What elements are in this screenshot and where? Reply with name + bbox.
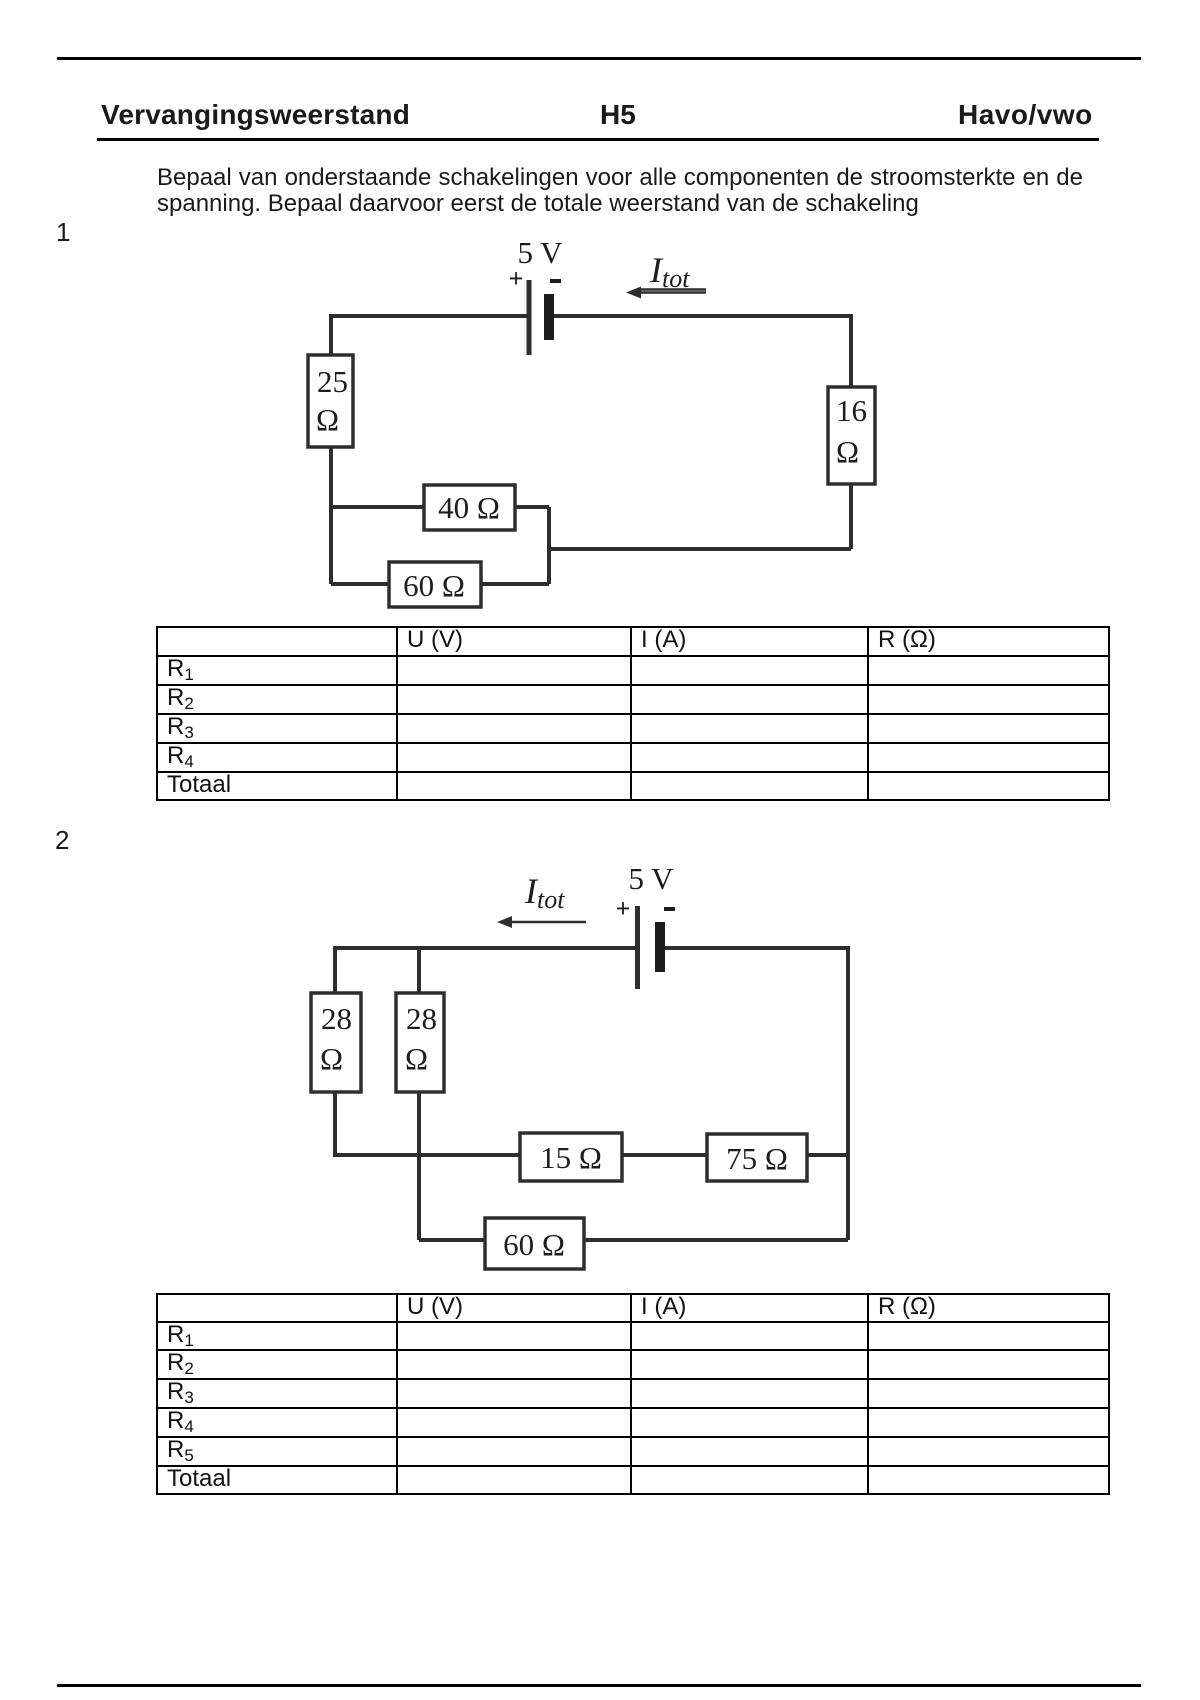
svg-text:28: 28	[321, 1001, 352, 1036]
svg-text:Ω: Ω	[316, 402, 339, 437]
svg-text:75 Ω: 75 Ω	[726, 1141, 788, 1176]
svg-text:+: +	[509, 264, 524, 293]
resistor R1 28 ohm box	[311, 993, 361, 1092]
wire: top left from battery to left corner	[331, 316, 529, 355]
exercise number 1	[56, 219, 70, 245]
answer table 1	[156, 626, 1110, 801]
wire: below R1 down to middle branch	[335, 1092, 520, 1155]
svg-text:Ω: Ω	[836, 434, 859, 469]
svg-text:40 Ω: 40 Ω	[438, 490, 500, 525]
circuit 1 schematic	[280, 235, 900, 620]
svg-text:16: 16	[836, 393, 867, 428]
resistor R3 15 ohm box	[520, 1133, 622, 1181]
resistor R4 75 ohm box	[707, 1134, 807, 1181]
resistor R2 16 ohm box	[828, 387, 875, 484]
wire: below R2 down to bottom branch	[417, 1092, 421, 1240]
header underline rule	[97, 138, 1099, 141]
Itot current arrow pointing left	[633, 291, 706, 294]
svg-text:+: +	[616, 894, 631, 923]
svg-text:Itot: Itot	[649, 250, 690, 293]
resistor R5 60 ohm box	[485, 1218, 584, 1269]
svg-text:Itot: Itot	[524, 871, 565, 914]
top page rule	[57, 57, 1141, 60]
answer table 2	[156, 1293, 1110, 1495]
svg-text:25: 25	[317, 364, 348, 399]
resistor R4 60 ohm box	[389, 562, 481, 607]
bottom page rule	[57, 1684, 1141, 1687]
battery V2 negative plate (short thick)	[655, 922, 665, 972]
wire: between R3 and R4	[622, 1153, 707, 1157]
exercise number 2	[55, 827, 69, 853]
battery minus sign	[550, 279, 561, 283]
svg-text:5 V: 5 V	[628, 861, 674, 896]
svg-text:Ω: Ω	[320, 1041, 343, 1076]
resistor R1 25 ohm box	[308, 355, 353, 447]
wire: branch to R3 40 ohm	[331, 505, 424, 509]
battery V1 negative plate (short thick)	[544, 294, 554, 340]
wire: top right from battery to right corner	[665, 948, 848, 1240]
svg-text:15 Ω: 15 Ω	[540, 1140, 602, 1175]
Itot current arrow pointing left	[504, 921, 586, 924]
Itot underline	[639, 288, 706, 291]
svg-text:60 Ω: 60 Ω	[403, 568, 465, 603]
header chapter H5	[600, 99, 636, 131]
wire: bottom branch to R5	[419, 1238, 485, 1242]
wire: bottom horizontal to right side	[549, 547, 851, 551]
wire: R4 to right vertical	[807, 1153, 848, 1157]
svg-text:5 V: 5 V	[517, 235, 563, 270]
wire: top branch to second resistor	[417, 948, 421, 993]
wire: left vertical below R1	[329, 447, 333, 584]
wire: R5 to right vertical	[584, 1238, 848, 1242]
wire: junction vertical connector	[547, 507, 551, 584]
svg-text:Ω: Ω	[405, 1041, 428, 1076]
svg-text:28: 28	[406, 1001, 437, 1036]
header title Vervangingsweerstand	[101, 99, 410, 131]
battery V1 positive plate (long)	[527, 280, 532, 355]
resistor R3 40 ohm box	[424, 485, 515, 530]
wire: bottom branch to R4 60 ohm	[331, 582, 389, 586]
wire: R4 to junction	[481, 582, 549, 586]
wire: top left from battery to left corner	[335, 948, 635, 993]
circuit 2 schematic	[280, 855, 900, 1285]
instruction paragraph	[157, 165, 1083, 218]
header level Havo/vwo	[958, 99, 1093, 131]
battery minus sign	[664, 907, 675, 911]
wire: R3 to junction	[515, 505, 549, 509]
wire: right vertical below R2	[849, 484, 853, 549]
resistor R2 28 ohm box	[396, 993, 444, 1092]
battery V2 positive plate (long)	[635, 906, 640, 989]
svg-text:60 Ω: 60 Ω	[503, 1227, 565, 1262]
wire: top right from battery to right corner	[554, 316, 851, 387]
